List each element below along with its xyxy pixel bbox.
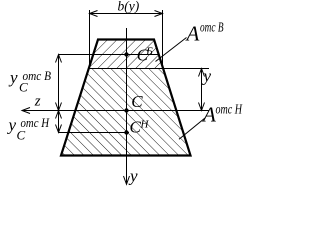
arrowhead down to z line	[56, 103, 62, 111]
cut line at level y	[89, 68, 209, 70]
b(y) left arrowhead	[90, 11, 98, 17]
z axis line	[22, 110, 209, 112]
svg-text:C: C	[131, 92, 143, 111]
svg-text:y: y	[202, 67, 212, 86]
lower area below cut (hatched \)	[61, 69, 191, 156]
right y dimension line	[201, 69, 203, 111]
arrowhead down at z line	[199, 103, 205, 111]
svg-text:Б: Б	[145, 46, 153, 58]
svg-text:z: z	[34, 94, 41, 110]
arrowhead down at CH line	[56, 125, 62, 133]
centroid dot CB	[124, 52, 128, 56]
y axis (vertical centroidal axis)	[126, 28, 128, 184]
svg-text:отс В: отс В	[200, 20, 224, 35]
b(y) right extension line	[162, 10, 164, 65]
svg-text:отс Н: отс Н	[216, 102, 243, 117]
b(y) right arrowhead	[155, 11, 163, 17]
svg-text:y: y	[8, 68, 18, 87]
centroid line of lower cut-off part (through CH)	[59, 132, 130, 134]
svg-text:отс Н: отс Н	[21, 115, 50, 130]
svg-text:Н: Н	[140, 119, 150, 131]
b(y) left extension line	[89, 10, 91, 68]
arrowhead up from z line	[56, 111, 62, 119]
upper cut-off area A otc B (hatched /)	[89, 40, 163, 69]
z axis arrowhead	[22, 108, 30, 114]
left dimension line (yC otc B / yC otc H)	[58, 55, 60, 133]
svg-text:b(y): b(y)	[118, 0, 140, 14]
centroid dot CH	[124, 130, 128, 134]
svg-text:A: A	[201, 103, 216, 127]
centroid line of upper cut-off part (through CB)	[59, 54, 160, 56]
y axis arrowhead	[124, 176, 130, 184]
leader line to A otc H	[179, 118, 205, 139]
b(y) dimension line	[90, 13, 163, 15]
trapezoid outline	[61, 40, 191, 156]
svg-text:A: A	[185, 22, 200, 46]
arrowhead up at cut line	[199, 69, 205, 77]
leader line to A otc B	[156, 38, 187, 62]
svg-text:y: y	[7, 116, 17, 135]
arrowhead up at CB line	[56, 55, 62, 63]
centroid dot C	[124, 108, 128, 112]
svg-text:отс В: отс В	[23, 68, 52, 83]
svg-text:y: y	[128, 167, 138, 186]
